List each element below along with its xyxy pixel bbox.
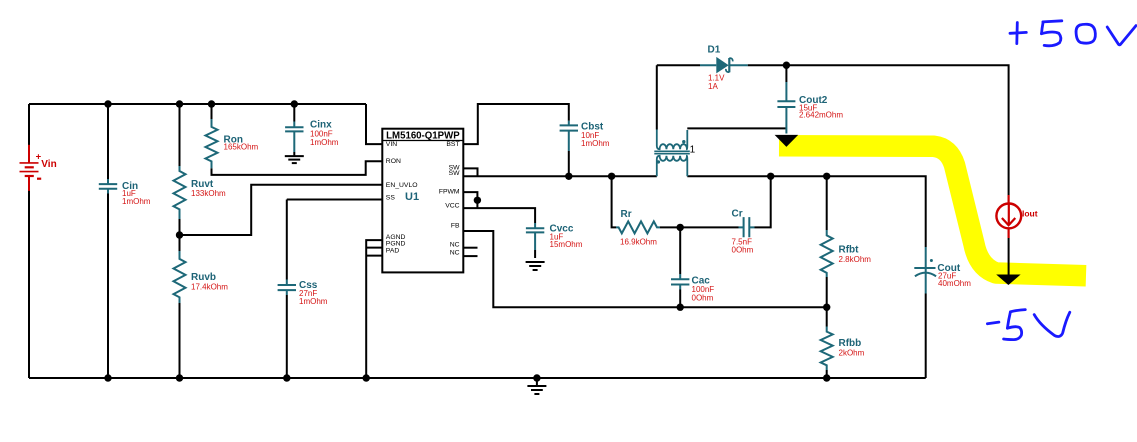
svg-text:Ruvb: Ruvb bbox=[191, 272, 216, 283]
svg-text:1: 1 bbox=[690, 145, 696, 156]
svg-text:2.8kOhm: 2.8kOhm bbox=[839, 255, 872, 264]
svg-text:NC: NC bbox=[450, 250, 460, 257]
svg-text:RON: RON bbox=[386, 158, 401, 165]
svg-text:40mOhm: 40mOhm bbox=[938, 279, 971, 288]
svg-text:133kOhm: 133kOhm bbox=[191, 189, 226, 198]
svg-text:BST: BST bbox=[446, 141, 459, 148]
svg-text:LM5160-Q1PWP: LM5160-Q1PWP bbox=[386, 130, 460, 141]
svg-text:VIN: VIN bbox=[386, 141, 397, 148]
svg-text:U1: U1 bbox=[405, 191, 419, 203]
svg-text:Ruvt: Ruvt bbox=[191, 179, 214, 190]
svg-text:1mOhm: 1mOhm bbox=[310, 138, 339, 147]
svg-text:1mOhm: 1mOhm bbox=[122, 197, 151, 206]
svg-text:FPWM: FPWM bbox=[439, 188, 460, 195]
svg-text:1A: 1A bbox=[708, 82, 718, 91]
svg-text:17.4kOhm: 17.4kOhm bbox=[191, 283, 228, 292]
svg-text:1mOhm: 1mOhm bbox=[581, 139, 610, 148]
svg-text:SS: SS bbox=[386, 194, 396, 201]
svg-text:0Ohm: 0Ohm bbox=[692, 293, 714, 302]
svg-text:165kOhm: 165kOhm bbox=[224, 143, 259, 152]
svg-text:FB: FB bbox=[451, 223, 460, 230]
svg-text:D1: D1 bbox=[708, 45, 721, 56]
svg-text:0Ohm: 0Ohm bbox=[732, 246, 754, 255]
svg-text:1mOhm: 1mOhm bbox=[299, 297, 328, 306]
svg-text:Cr: Cr bbox=[732, 209, 743, 220]
svg-text:Rfbb: Rfbb bbox=[839, 338, 862, 349]
svg-text:2kOhm: 2kOhm bbox=[839, 349, 865, 358]
svg-text:15mOhm: 15mOhm bbox=[550, 240, 583, 249]
svg-text:NC: NC bbox=[450, 242, 460, 249]
svg-text:EN_UVLO: EN_UVLO bbox=[386, 182, 418, 189]
svg-text:2.642mOhm: 2.642mOhm bbox=[799, 110, 843, 119]
svg-text:PAD: PAD bbox=[386, 248, 400, 255]
svg-text:Rr: Rr bbox=[621, 209, 632, 220]
svg-text:VCC: VCC bbox=[445, 203, 459, 210]
svg-text:Vin: Vin bbox=[41, 159, 56, 170]
svg-text:16.9kOhm: 16.9kOhm bbox=[620, 238, 657, 247]
svg-text:SW: SW bbox=[449, 170, 461, 177]
svg-text:Iout: Iout bbox=[1022, 208, 1038, 218]
